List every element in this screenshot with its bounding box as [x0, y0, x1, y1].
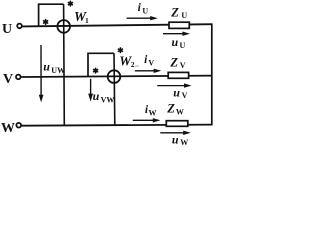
svg-text:V: V — [182, 91, 188, 100]
current arrow iU — [127, 17, 152, 19]
svg-text:u: u — [43, 60, 50, 74]
svg-text:Z: Z — [169, 55, 178, 69]
wattmeter W1 circle — [57, 20, 70, 33]
wire: phase U line — [22, 24, 213, 26]
current arrow iW — [133, 119, 154, 121]
voltage arrow uUW — [40, 45, 42, 96]
svg-text:Z: Z — [166, 102, 175, 116]
svg-text:W: W — [180, 138, 188, 146]
wattmeter W1 voltage-coil wire to phase W — [63, 4, 66, 125]
svg-text:Z: Z — [170, 5, 179, 19]
W1 polarity asterisk (current coil) — [44, 20, 48, 25]
wattmeter W2 current-coil loop — [88, 53, 114, 76]
voltage arrow uV — [157, 85, 185, 87]
svg-text:W: W — [176, 107, 184, 116]
wattmeter W2 voltage-coil wire to phase W — [113, 53, 116, 125]
current arrow iV — [135, 70, 156, 72]
wattmeter W1 current-coil loop — [39, 4, 64, 27]
terminal W circle — [16, 123, 21, 128]
svg-text:V: V — [3, 72, 13, 87]
svg-text:W: W — [1, 121, 15, 136]
svg-text:U: U — [142, 6, 148, 15]
voltage arrow uW — [160, 132, 184, 134]
svg-text:u: u — [173, 86, 180, 100]
voltage arrow uVW — [90, 79, 92, 95]
svg-text:2: 2 — [131, 60, 135, 69]
impedance ZV — [168, 72, 188, 78]
impedance ZW — [166, 121, 188, 127]
svg-text:U: U — [2, 22, 12, 37]
svg-text:U: U — [180, 41, 186, 50]
W1 polarity asterisk (voltage coil) — [68, 1, 72, 6]
svg-text:V: V — [148, 59, 154, 68]
wire: right bus (star point) — [211, 24, 213, 125]
wire: phase W line — [21, 125, 212, 126]
svg-text:u: u — [93, 89, 100, 103]
terminal V circle — [16, 75, 21, 80]
svg-text:W: W — [149, 109, 157, 118]
svg-text:i: i — [138, 2, 142, 14]
svg-text:u: u — [172, 133, 179, 147]
svg-text:U: U — [181, 11, 187, 20]
wire: phase V line — [21, 76, 213, 77]
svg-text:V: V — [180, 61, 186, 70]
svg-text:VW: VW — [101, 95, 115, 104]
svg-text:UW: UW — [51, 66, 65, 75]
svg-text:u: u — [172, 35, 179, 49]
voltage arrow uU — [163, 33, 184, 35]
W2 polarity asterisk (voltage coil) — [118, 48, 122, 53]
W2 polarity asterisk (current coil) — [94, 68, 98, 73]
wattmeter W2 circle — [108, 70, 121, 83]
faint print dash — [135, 65, 139, 67]
impedance ZU — [169, 22, 189, 28]
svg-text:1: 1 — [85, 16, 89, 25]
terminal U circle — [17, 24, 22, 29]
